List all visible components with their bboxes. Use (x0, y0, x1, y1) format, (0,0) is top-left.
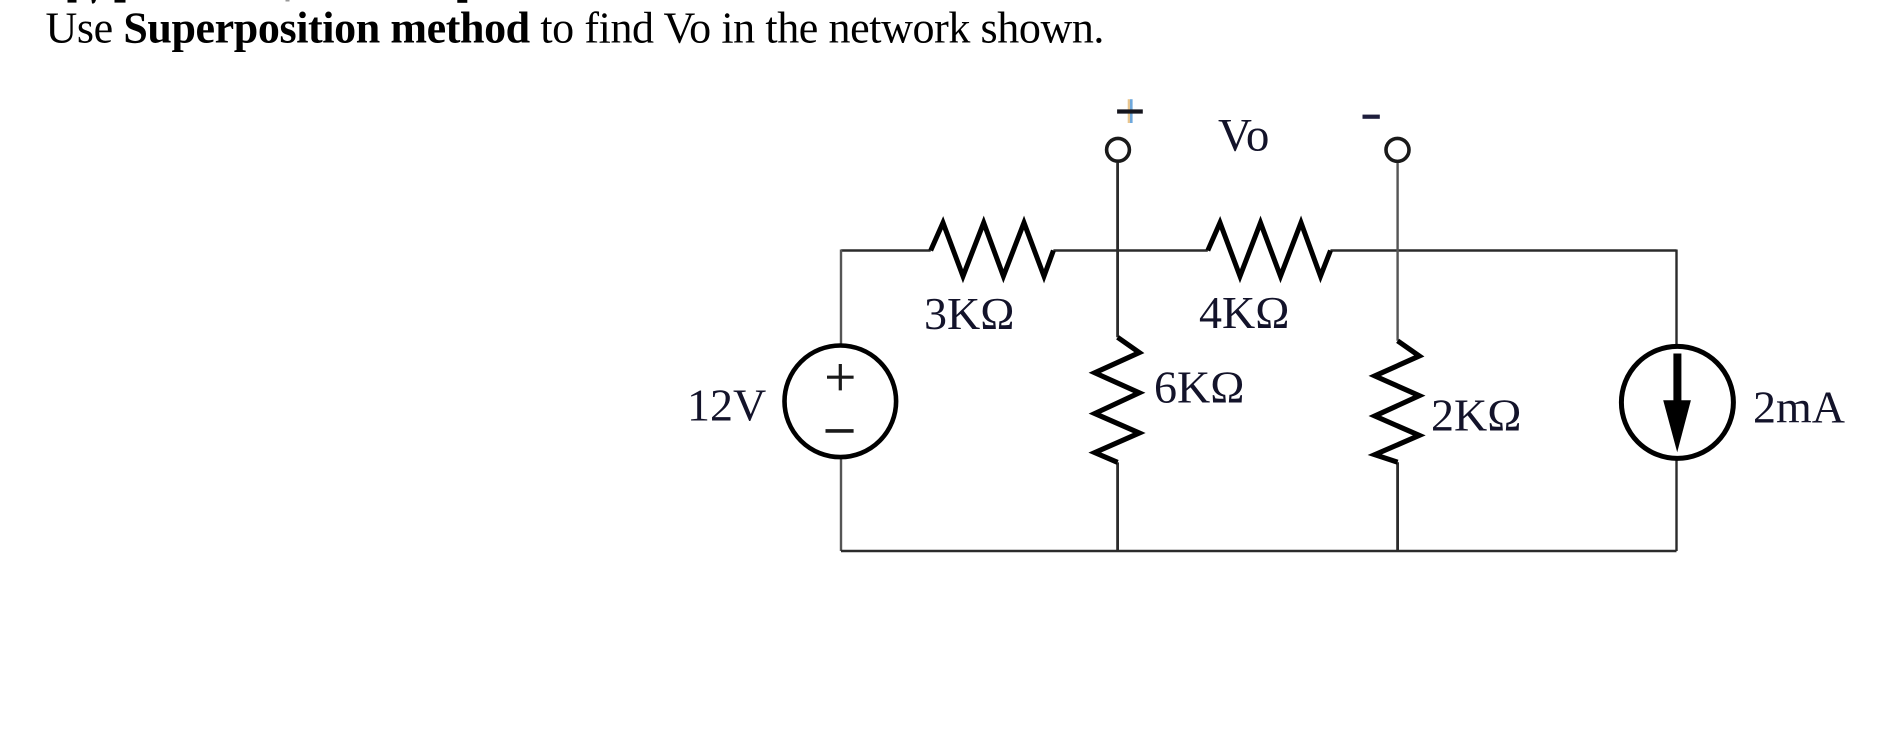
current source I1 arrow shaft (1673, 354, 1681, 406)
current source I1 2mA circle (1621, 346, 1733, 458)
wire: top rail left segment (source to 3K) (841, 249, 931, 252)
cropped text remnant faint mark (286, 0, 290, 2)
wire: left branch upper (to 12V source top) (840, 250, 842, 345)
svg-text:4KΩ: 4KΩ (1199, 287, 1289, 338)
svg-text:3KΩ: 3KΩ (924, 288, 1014, 339)
voltage source V1 12V circle (785, 346, 897, 458)
node + polarity mark (blue-tinted plus) (1128, 99, 1130, 123)
svg-text:6KΩ: 6KΩ (1154, 362, 1244, 413)
node - terminal circle (1386, 138, 1409, 161)
svg-text:Vo: Vo (1218, 110, 1269, 162)
voltage source V1 plus sign (827, 364, 854, 390)
wire: + terminal lead down through node to 6K top (1116, 163, 1119, 337)
voltage source V1 minus sign (826, 429, 854, 433)
cropped text remnant mark 2 (115, 0, 126, 3)
svg-text:12V: 12V (687, 380, 766, 431)
wire: top rail right segment (4K to current source branch) (1331, 249, 1677, 252)
wire: 2K bottom to bottom rail (1396, 462, 1399, 551)
node - polarity mark (dash) (1363, 115, 1380, 119)
svg-text:2KΩ: 2KΩ (1431, 390, 1521, 441)
resistor R4 2K (vertical zigzag) (1375, 341, 1420, 462)
svg-text:2mA: 2mA (1753, 382, 1845, 433)
cropped text remnant comma (92, 0, 97, 4)
svg-text:Use Superposition method to fi: Use Superposition method to find Vo in t… (46, 4, 1105, 53)
resistor R3 6K (vertical zigzag) (1095, 337, 1140, 462)
cropped text remnant mark 1 (top edge) (68, 0, 77, 3)
wire: right branch lower (2mA source bottom to bottom rail) (1675, 460, 1677, 551)
resistor R1 3K (horizontal zigzag) (931, 223, 1054, 277)
node + terminal circle (1107, 138, 1130, 161)
wire: 6K bottom to bottom rail (1116, 462, 1119, 551)
wire: bottom rail (841, 550, 1677, 553)
cropped text remnant mark 3 (457, 0, 467, 3)
wire: - terminal lead down to 2K top (1396, 163, 1398, 341)
wire: top rail middle segment (3K to 4K through + node) (1053, 249, 1207, 252)
current source I1 arrow head (1663, 400, 1691, 452)
wire: right branch upper (to 2mA source top) (1675, 250, 1677, 346)
resistor R2 4K (horizontal zigzag) (1208, 223, 1331, 277)
wire: left branch lower (12V source bottom to bottom rail) (840, 459, 842, 551)
